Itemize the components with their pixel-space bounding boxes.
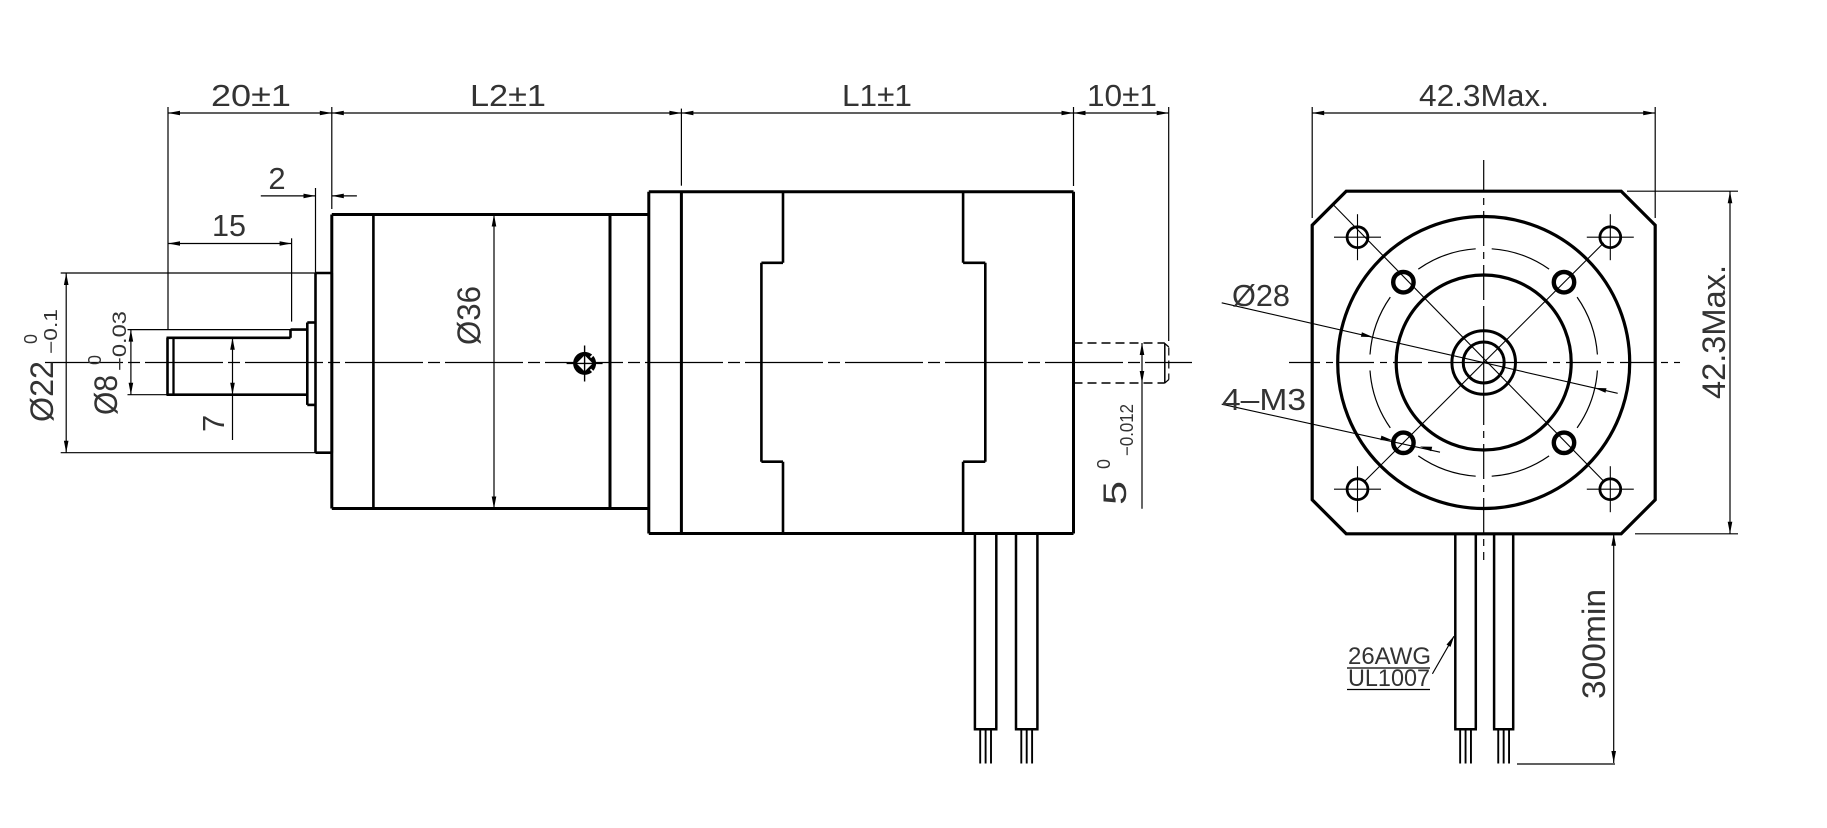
diagonal centerline NW-SE [1333,204,1605,482]
svg-text:2: 2 [268,161,285,196]
svg-text:0: 0 [85,355,105,365]
motor body [649,190,1074,193]
label 4-M3 with leader [1222,404,1440,452]
dim 300min [1613,534,1615,763]
M3 hole bottom-left [1393,433,1413,453]
svg-text:300min: 300min [1576,589,1612,699]
lead wires (side view) [974,534,977,729]
svg-text:20±1: 20±1 [211,78,291,113]
svg-text:−0.012: −0.012 [1117,404,1137,456]
dim 20±1 [167,107,169,330]
svg-text:Ø8: Ø8 [88,375,124,415]
svg-text:L1±1: L1±1 [842,78,912,113]
corner hole top-left [1347,227,1368,248]
pilot boss Ø22 [314,273,317,453]
corner hole top-right [1600,227,1621,248]
gearbox housing Ø36 [332,213,649,216]
svg-text:Ø36: Ø36 [451,286,487,345]
svg-text:UL1007: UL1007 [1348,665,1430,692]
svg-text:Ø22: Ø22 [24,361,60,422]
svg-text:Ø28: Ø28 [1232,278,1290,313]
svg-text:5: 5 [1097,481,1133,505]
motor rear cap joint [962,192,965,263]
output shaft Ø8 [166,338,169,395]
dim 10±1 [1168,107,1170,341]
svg-text:L2±1: L2±1 [470,78,546,113]
svg-text:0: 0 [1094,459,1114,469]
front flange outline [1312,191,1655,534]
dim 2 [315,188,317,273]
corner hole bottom-right [1600,479,1621,500]
svg-text:0: 0 [21,334,41,344]
shaft circle Ø5 [1463,342,1504,383]
svg-text:−0.1: −0.1 [41,309,61,354]
svg-text:4–M3: 4–M3 [1222,382,1306,417]
svg-text:10±1: 10±1 [1087,78,1157,113]
M3 hole bottom-right [1554,433,1574,453]
M3 hole top-right [1554,272,1574,292]
bolt circle Ø28 (dashed) [1577,371,1597,428]
centerline (side view) [45,362,1192,364]
dim 15 [291,238,293,321]
diagonal centerline NE-SW [1364,243,1604,482]
dim 7 [232,338,234,440]
lead wires (front view) [1454,534,1457,729]
rear shaft Ø5 (dashed) [1074,342,1165,344]
shaft hub Ø10 [306,323,309,405]
svg-text:15: 15 [212,208,246,243]
boss circle Ø22 [1396,275,1571,450]
front view horizontal centerline [1289,362,1320,364]
dim 5 0/-0.012 [1141,343,1143,509]
gearbox circle Ø36 [1338,217,1630,509]
dim Ø22 0/-0.1 [61,272,316,274]
corner hole bottom-left [1347,479,1368,500]
svg-text:42.3Max.: 42.3Max. [1419,78,1549,113]
dim 42.3Max (right) [1627,190,1738,192]
motor front cap joint [782,192,785,263]
svg-text:42.3Max.: 42.3Max. [1696,265,1732,399]
dim L1±1 [1073,107,1075,186]
label Ø28 with leader [1222,303,1618,394]
svg-text:−0.03: −0.03 [110,311,131,371]
M3 hole top-left [1393,272,1413,292]
dim Ø8 0/-0.03 [128,329,291,331]
front view vertical centerline [1483,160,1485,192]
shaft circle Ø8 [1452,331,1516,395]
svg-text:7: 7 [196,415,231,432]
vent screw [573,352,596,375]
dim 42.3Max (top) [1311,107,1313,218]
dim L2±1 [680,109,682,186]
dim Ø36 [493,215,495,509]
